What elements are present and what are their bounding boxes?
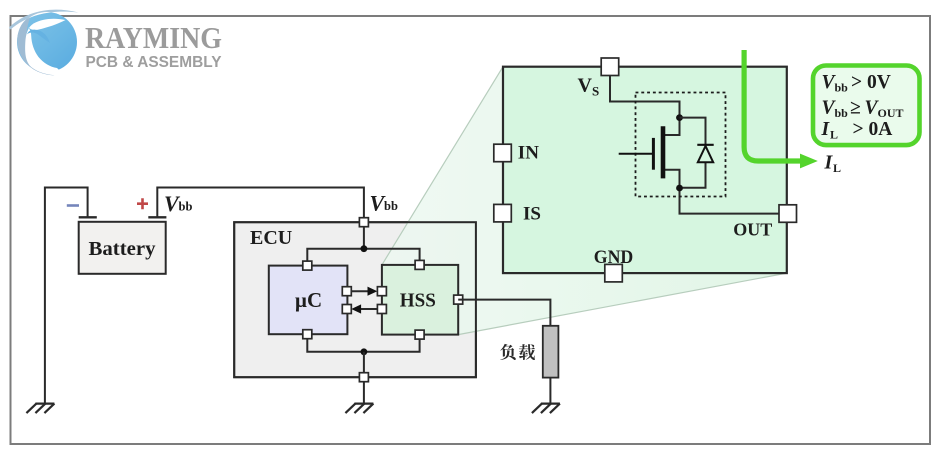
wire: MOSFET source to OUT pin [665, 170, 779, 214]
svg-text:bb: bb [835, 106, 849, 120]
operating conditions box [813, 66, 920, 146]
ECU box border [234, 222, 476, 377]
Vs label [578, 75, 600, 99]
pin: uC in [342, 305, 351, 314]
svg-text:≥: ≥ [850, 98, 861, 119]
HSS high-side switch [382, 265, 458, 335]
svg-text:µC: µC [295, 288, 322, 312]
HSS detail view box [503, 67, 787, 273]
power MOSFET dashed outline [636, 93, 726, 197]
GND label [594, 247, 634, 268]
svg-text:HSS: HSS [400, 290, 436, 312]
IL label [824, 152, 842, 176]
Vbb label (battery) [164, 191, 192, 216]
ground (load) [532, 404, 560, 414]
svg-text:L: L [830, 128, 838, 142]
svg-text:I: I [821, 119, 831, 140]
signal arrow HSS to uC [351, 304, 377, 313]
svg-text:> 0V: > 0V [851, 72, 891, 93]
pin: IS [494, 204, 512, 222]
pin: HSS in [377, 287, 386, 296]
svg-text:bb: bb [384, 199, 398, 213]
pin: uC ground [303, 330, 312, 339]
wire: body diode anode to source [680, 162, 706, 188]
IS label [523, 203, 541, 224]
svg-text:S: S [592, 84, 599, 99]
Vbb label (ECU supply) [370, 190, 398, 215]
IN label [518, 143, 539, 164]
pin: uC out [342, 287, 351, 296]
MOSFET Q1 [619, 126, 663, 178]
svg-text:RAYMING: RAYMING [85, 21, 222, 55]
pin: OUT [779, 205, 797, 223]
svg-text:bb: bb [835, 81, 849, 95]
equation IL > 0A [821, 119, 893, 142]
wire: drain to body diode cathode [680, 118, 706, 145]
node: supply junction [361, 245, 368, 252]
svg-text:ECU: ECU [250, 227, 292, 249]
pin: ECU ground [359, 373, 368, 382]
zoom cone from HSS to detail view [382, 67, 787, 335]
load resistor 负载 [543, 326, 559, 378]
svg-text:IN: IN [518, 143, 539, 164]
svg-text:IS: IS [523, 203, 541, 224]
microcontroller uC [269, 266, 348, 335]
svg-text:> 0A: > 0A [853, 119, 893, 140]
wire: Vs to MOSFET drain [610, 74, 680, 135]
ECU box [234, 222, 476, 377]
equation Vbb >= Vout [822, 98, 904, 121]
wire: ECU supply pin to node [363, 222, 365, 249]
svg-text:PCB & ASSEMBLY: PCB & ASSEMBLY [86, 54, 223, 71]
wire: battery plus to ECU Vbb [157, 188, 364, 223]
wire: load to ground [549, 378, 551, 404]
svg-text:L: L [833, 161, 841, 175]
pin: GND [605, 264, 623, 282]
pin: uC supply [303, 261, 312, 270]
pin: IN [494, 144, 512, 162]
ground (ECU) [345, 404, 373, 414]
body diode D1 [697, 145, 713, 163]
ground (battery) [26, 404, 54, 414]
svg-text:Battery: Battery [89, 239, 156, 260]
load label 负载 [500, 344, 535, 360]
pin: Vs [601, 58, 619, 76]
battery plus label [137, 198, 148, 209]
svg-text:GND: GND [594, 247, 634, 268]
pin: ECU Vbb [359, 218, 368, 227]
pin: HSS ground [415, 330, 424, 339]
signal arrow uC to HSS [351, 287, 377, 296]
pin: HSS is [377, 305, 386, 314]
pin: HSS out [454, 295, 463, 304]
svg-text:V: V [578, 75, 593, 97]
wire: battery minus to ground [45, 188, 88, 404]
wire: ground bus to ECU ground pin and ground [363, 352, 365, 404]
node: source junction [676, 185, 683, 192]
battery [79, 217, 167, 273]
battery minus label [67, 204, 79, 207]
load current arrow IL [744, 50, 818, 168]
wire: supply bus to uC and HSS [307, 249, 419, 266]
svg-text:I: I [824, 152, 834, 174]
svg-text:bb: bb [179, 199, 193, 213]
RayMing logo [9, 10, 222, 76]
node: drain junction [676, 114, 683, 121]
wire: HSS out to load [458, 300, 550, 326]
node: ground junction [361, 348, 368, 355]
pin: HSS supply [415, 260, 424, 269]
OUT label [733, 220, 772, 240]
svg-text:OUT: OUT [878, 106, 904, 120]
svg-text:OUT: OUT [733, 220, 772, 240]
wire: ground bus uC and HSS [307, 334, 419, 352]
equation Vbb > 0V [822, 72, 891, 95]
